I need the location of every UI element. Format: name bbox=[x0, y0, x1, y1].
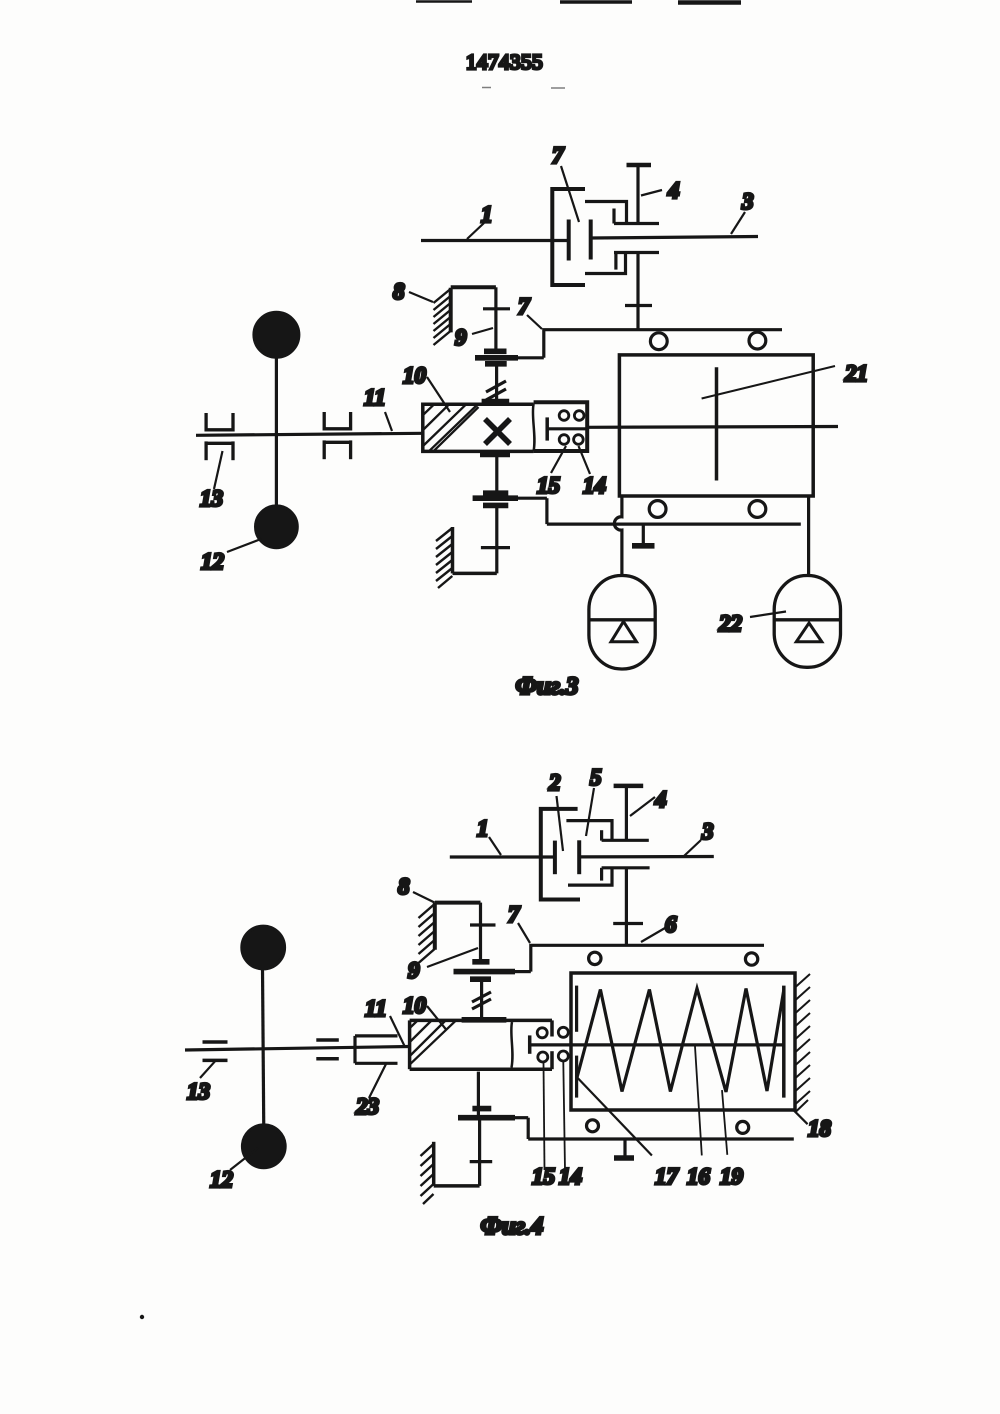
linkage riser to bottom line bbox=[545, 498, 548, 524]
shaft 1 (input) bbox=[421, 239, 568, 242]
svg-text:7: 7 bbox=[518, 294, 531, 319]
T support under line bbox=[623, 1139, 626, 1158]
leader 17 bbox=[578, 1078, 652, 1156]
T support under box bbox=[642, 524, 645, 546]
bracket to gear 9 bbox=[435, 901, 481, 905]
sleeve box 23 bbox=[355, 1036, 398, 1063]
leader 22 bbox=[750, 612, 786, 618]
shaft 3 (output) bbox=[591, 237, 758, 239]
leader 10 bbox=[427, 1006, 447, 1030]
leader 3 bbox=[684, 840, 701, 856]
leader 7b bbox=[527, 315, 542, 329]
svg-text:10: 10 bbox=[403, 993, 427, 1018]
shaft 1 bbox=[450, 855, 554, 858]
spring 19 bbox=[577, 989, 784, 1093]
gear tick lower bbox=[481, 546, 510, 549]
bottom line bbox=[547, 522, 801, 525]
gear bell lower bbox=[568, 868, 612, 885]
main shaft 11 (left) bbox=[196, 433, 423, 435]
svg-text:10: 10 bbox=[403, 363, 427, 388]
clutch housing 7 bbox=[552, 189, 585, 285]
svg-text:16: 16 bbox=[687, 1164, 711, 1189]
svg-text:3: 3 bbox=[701, 819, 714, 844]
flywheel shaft vertical bbox=[275, 356, 278, 508]
leader 13 bbox=[200, 1061, 215, 1078]
wavy divider bbox=[511, 1022, 512, 1068]
rollers top bbox=[589, 952, 601, 964]
svg-text:12: 12 bbox=[201, 549, 224, 574]
svg-text:15: 15 bbox=[537, 473, 560, 498]
friction clutch upper bbox=[472, 959, 489, 965]
wall 8 bbox=[419, 903, 435, 964]
leader 1 bbox=[489, 837, 501, 855]
block 10 (variator) bbox=[423, 404, 534, 451]
leader 16 bbox=[695, 1045, 702, 1155]
coupling box with pins 14 15 bbox=[534, 402, 588, 451]
bearing left 13 bbox=[203, 1042, 228, 1060]
accumulator line left with jump bbox=[614, 496, 622, 576]
spring seat left bbox=[575, 986, 578, 1032]
leader 15 bbox=[544, 1063, 545, 1170]
gear bell upper bbox=[566, 821, 612, 841]
bearing left 13 bbox=[205, 413, 234, 460]
leader 7 bbox=[518, 923, 530, 943]
svg-text:11: 11 bbox=[364, 385, 386, 410]
gear on shaft 4 bbox=[625, 304, 652, 307]
friction clutch lower plates bbox=[483, 490, 508, 496]
wall lower bbox=[421, 1142, 480, 1204]
svg-text:6: 6 bbox=[665, 912, 677, 937]
rollers top bbox=[650, 333, 667, 350]
svg-text:7: 7 bbox=[552, 143, 565, 168]
svg-text:14: 14 bbox=[583, 473, 606, 498]
bearing right bbox=[323, 412, 352, 459]
flywheel ball upper bbox=[254, 312, 299, 357]
svg-text:13: 13 bbox=[200, 486, 223, 511]
gear tick lower bbox=[470, 1160, 493, 1163]
rollers bottom bbox=[649, 501, 666, 518]
leader 8 bbox=[409, 292, 433, 302]
shaft 6 vertical bbox=[625, 868, 628, 946]
gear bell upper bbox=[585, 202, 627, 224]
svg-text:18: 18 bbox=[808, 1116, 832, 1141]
leader 23 bbox=[369, 1064, 386, 1098]
shaft 4 vertical bbox=[627, 163, 652, 168]
svg-text:Фиг.3: Фиг.3 bbox=[516, 673, 579, 700]
svg-text:11: 11 bbox=[365, 996, 387, 1021]
rod T in coupling bbox=[528, 1035, 532, 1053]
svg-text:17: 17 bbox=[655, 1164, 680, 1189]
svg-text:19: 19 bbox=[720, 1164, 744, 1189]
svg-text:13: 13 bbox=[187, 1079, 210, 1104]
worm shaft upper bbox=[480, 979, 483, 1018]
svg-text:4: 4 bbox=[667, 178, 680, 203]
svg-text:8: 8 bbox=[398, 874, 410, 899]
shaft 4 vertical bbox=[614, 784, 644, 789]
gear 9 tick bbox=[470, 923, 496, 926]
line 7 (linkage) bbox=[544, 330, 782, 358]
gear 9 tick bbox=[483, 307, 510, 310]
leader 18 bbox=[794, 1110, 808, 1124]
leader 21 bbox=[702, 366, 835, 399]
leader 7 bbox=[561, 166, 579, 222]
bottom line bbox=[528, 1137, 794, 1140]
svg-text:1: 1 bbox=[477, 816, 489, 841]
pin circles bbox=[559, 411, 584, 445]
gear 9 shaft bbox=[479, 903, 482, 960]
pin circles 14 15 bbox=[537, 1027, 568, 1062]
leader 5 bbox=[586, 788, 594, 836]
leader 14 bbox=[563, 1062, 565, 1170]
flywheel shaft vertical bbox=[263, 968, 264, 1133]
leader 12 bbox=[227, 539, 261, 552]
clutch housing 2 bbox=[541, 809, 580, 900]
wall lower bbox=[436, 527, 497, 588]
leader 12 bbox=[230, 1148, 258, 1170]
linkage riser lower bbox=[527, 1118, 530, 1139]
clutch plate right bbox=[589, 220, 593, 260]
block 10 bbox=[410, 1020, 552, 1069]
leader 1 bbox=[467, 223, 484, 239]
wavy divider bbox=[533, 404, 535, 451]
main shaft left fig4 bbox=[185, 1047, 410, 1051]
flywheel ball upper bbox=[242, 926, 285, 969]
svg-text:23: 23 bbox=[355, 1094, 379, 1119]
shaft 3 bbox=[579, 855, 714, 859]
accumulator 22 left bbox=[589, 576, 655, 670]
wall 8 bbox=[434, 288, 451, 345]
svg-text:12: 12 bbox=[210, 1167, 233, 1192]
clutch plate left bbox=[553, 841, 557, 875]
page top scan marks bbox=[140, 2, 741, 1320]
shaft of gear 9 bbox=[494, 287, 497, 349]
svg-text:15: 15 bbox=[532, 1164, 555, 1189]
leader 9 bbox=[427, 948, 478, 967]
leader 19 bbox=[722, 1090, 727, 1155]
gearbox 21 bbox=[619, 355, 813, 496]
line 7 bbox=[531, 945, 764, 971]
leader 4 bbox=[641, 190, 662, 196]
leader 3 bbox=[731, 212, 745, 234]
bracket to gear 9 bbox=[451, 285, 496, 289]
leader 4 bbox=[630, 797, 655, 816]
worm shaft lower bbox=[480, 451, 510, 457]
flywheel ball lower 12 bbox=[242, 1125, 285, 1168]
leader 2 bbox=[557, 796, 564, 851]
leader 6 bbox=[641, 928, 665, 942]
svg-text:3: 3 bbox=[741, 189, 754, 214]
leader 14 bbox=[579, 446, 591, 474]
rod 16 through spring box bbox=[530, 1043, 784, 1046]
leader 10 bbox=[427, 377, 450, 412]
svg-text:Фиг.4: Фиг.4 bbox=[481, 1213, 544, 1240]
leader 11 bbox=[390, 1016, 405, 1047]
spring box 18 bbox=[571, 973, 795, 1110]
gear tick 6 bbox=[613, 922, 643, 925]
clutch plate left bbox=[567, 220, 571, 261]
svg-text:9: 9 bbox=[455, 325, 467, 350]
accumulator line right bbox=[807, 496, 810, 576]
svg-text:4: 4 bbox=[654, 787, 667, 812]
svg-text:14: 14 bbox=[559, 1164, 582, 1189]
svg-text:5: 5 bbox=[590, 765, 602, 790]
svg-text:1474355: 1474355 bbox=[466, 50, 543, 74]
svg-text:21: 21 bbox=[844, 361, 868, 386]
main shaft through box 21 bbox=[587, 425, 838, 429]
leader 15 bbox=[551, 446, 566, 473]
gear bell lower bbox=[585, 253, 626, 274]
rollers bottom bbox=[587, 1120, 599, 1132]
spring seat right bbox=[782, 986, 786, 1098]
friction clutch upper (plates) bbox=[484, 348, 507, 354]
svg-text:9: 9 bbox=[408, 958, 420, 983]
leader 11 bbox=[385, 412, 392, 431]
accumulator 22 right bbox=[774, 576, 840, 668]
leader 8 bbox=[413, 892, 435, 903]
bearing right bbox=[316, 1040, 339, 1059]
svg-text:2: 2 bbox=[548, 770, 561, 795]
worm shaft upper bbox=[495, 364, 498, 401]
leader 13 bbox=[214, 451, 223, 489]
svg-text:8: 8 bbox=[393, 279, 405, 304]
leader 9 bbox=[472, 328, 493, 334]
svg-text:22: 22 bbox=[718, 611, 742, 636]
flywheel ball lower 12 bbox=[256, 506, 298, 548]
X mark in block bbox=[485, 419, 510, 444]
friction clutch lower bbox=[472, 1106, 491, 1112]
clutch plate right bbox=[577, 840, 581, 874]
worm shaft lower bbox=[477, 1072, 480, 1118]
